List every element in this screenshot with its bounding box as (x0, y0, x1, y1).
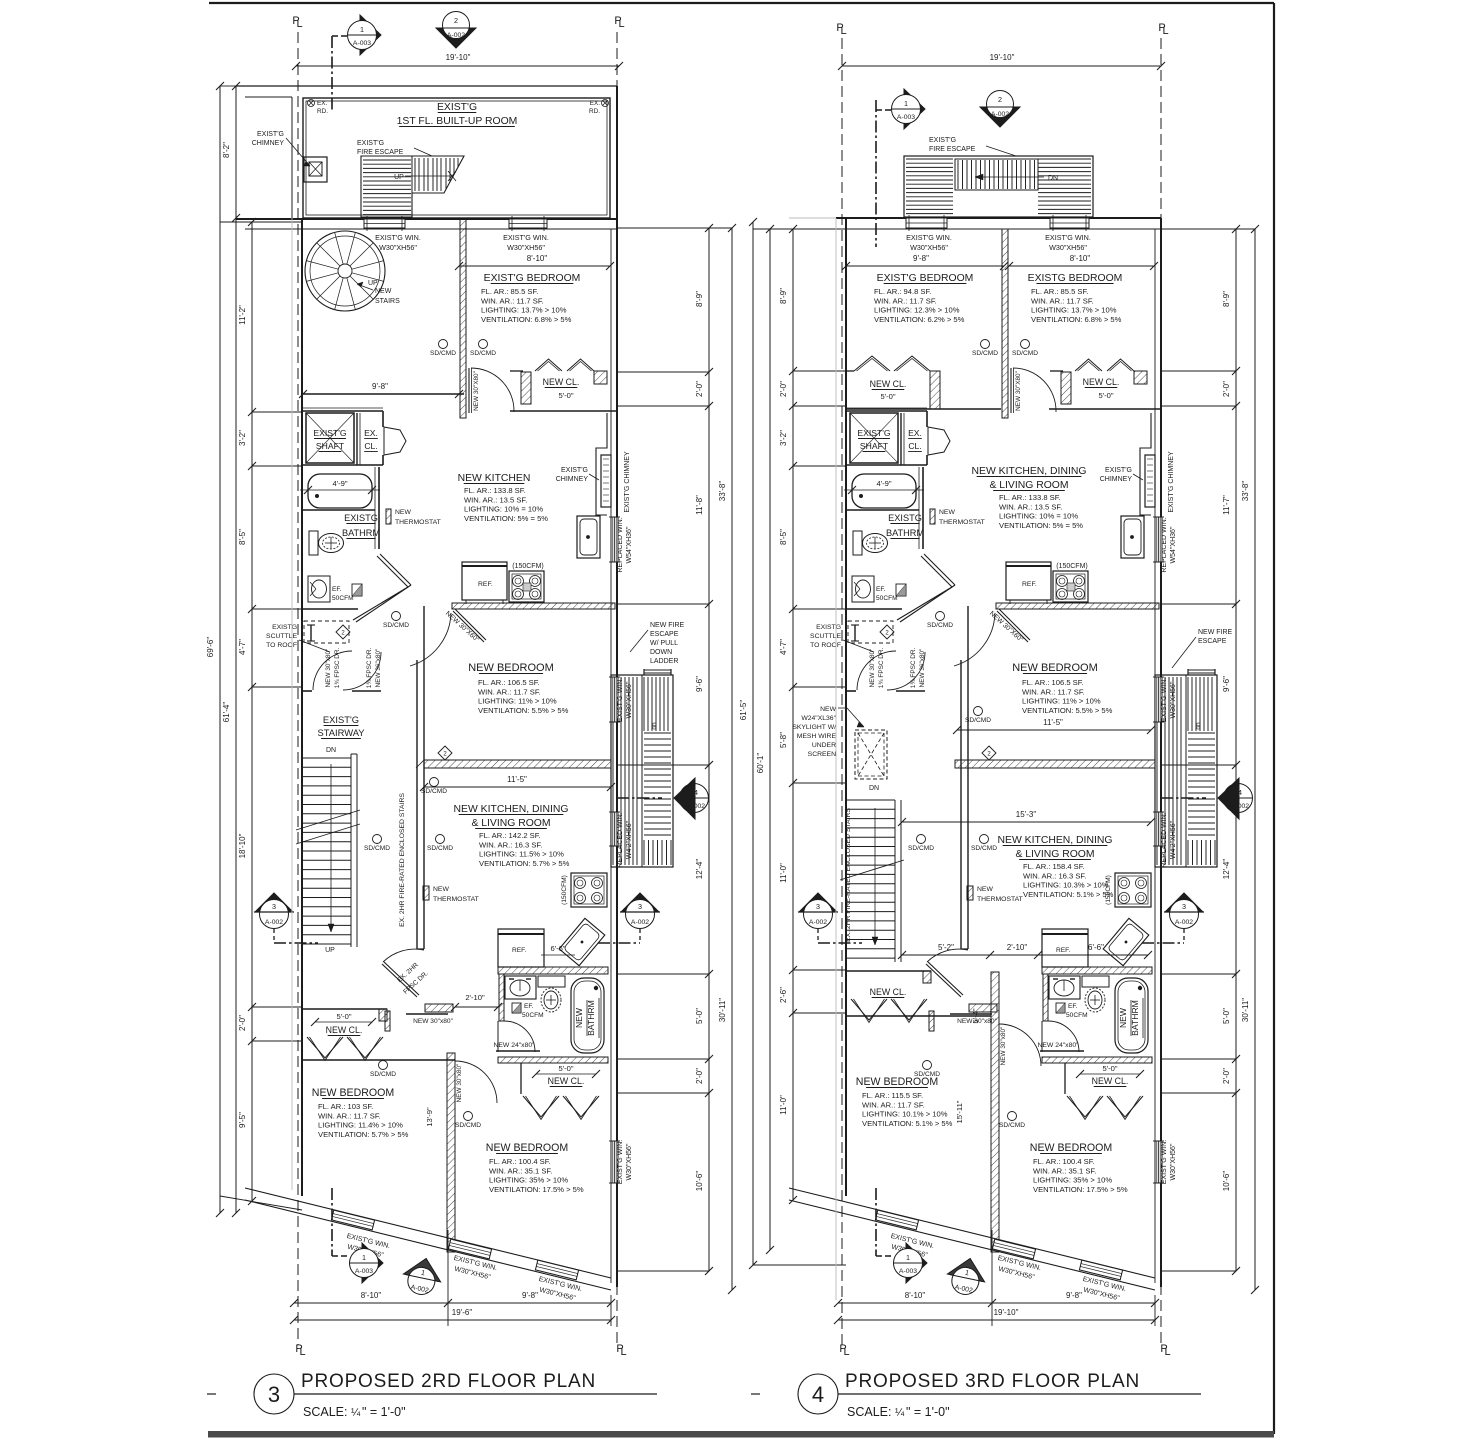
window (509, 219, 547, 228)
svg-text:REF.: REF. (1022, 581, 1037, 588)
dimension line (251, 222, 253, 1201)
toilet2 (1082, 976, 1109, 987)
top wall 3rd floor (836, 217, 1161, 219)
svg-text:REF.: REF. (512, 947, 526, 954)
door EX CL (928, 427, 950, 455)
stove2 (1115, 873, 1151, 907)
fire escape middle right (2nd floor) (611, 675, 673, 867)
svg-text:EXIST'G: EXIST'G (437, 102, 477, 113)
closet2 doors chevron (1067, 1096, 1103, 1117)
door arcs corridor (857, 651, 896, 690)
svg-text:8'-10": 8'-10" (905, 1291, 926, 1300)
smoke detector symbol SD/CMD (974, 707, 983, 716)
wall stub hatched below door (425, 1004, 453, 1012)
range stove (509, 571, 544, 602)
section cut line bottom (875, 1188, 877, 1256)
svg-text:MESH WIRE: MESH WIRE (797, 733, 837, 740)
extension lines left (252, 411, 302, 413)
wall below tub (302, 509, 375, 511)
svg-text:EXISTG BEDROOM: EXISTG BEDROOM (1028, 273, 1123, 284)
refrigerator2 (1042, 929, 1088, 967)
svg-text:NEW CL.: NEW CL. (1092, 1076, 1129, 1086)
dimension line (424, 786, 611, 788)
window in diagonal wall (331, 1210, 374, 1230)
svg-text:NEW KITCHEN: NEW KITCHEN (458, 473, 531, 484)
svg-text:EF.: EF. (876, 586, 886, 593)
diagonal exterior wall (245, 1188, 611, 1278)
svg-text:EXIST'G WIN.: EXIST'G WIN. (906, 233, 952, 242)
svg-text:UNDER: UNDER (812, 742, 836, 749)
wall bathroom bottom (846, 608, 902, 610)
svg-text:NEW 30"X80": NEW 30"X80" (1015, 371, 1022, 411)
svg-text:1: 1 (362, 1253, 366, 1262)
wall bathroom2 top hatched (498, 967, 608, 974)
section marker 3/A-002 (621, 893, 659, 912)
dimension line (708, 228, 710, 1271)
svg-text:EF.: EF. (332, 586, 342, 593)
EX RD symbol right (602, 100, 609, 107)
kitchen2 sink tilted (559, 918, 605, 965)
svg-text:LIGHTING: 13.7% > 10%: LIGHTING: 13.7% > 10% (1031, 306, 1117, 315)
stair treads (1188, 732, 1215, 734)
chimney left (304, 157, 327, 182)
smoke detector symbol SD/CMD (981, 340, 990, 349)
svg-text:19'-10": 19'-10" (446, 53, 471, 62)
window (906, 218, 947, 228)
svg-text:NEW 30"X80": NEW 30"X80" (473, 371, 480, 411)
svg-text:1¾ FPSC DR.: 1¾ FPSC DR. (334, 648, 341, 689)
window (1050, 218, 1089, 228)
stair rail 3rd (894, 800, 896, 962)
svg-text:SKYLIGHT W/: SKYLIGHT W/ (792, 724, 836, 731)
svg-text:SCUTTLE: SCUTTLE (810, 633, 841, 640)
section marker 4/A-002 (680, 784, 709, 813)
main floor top wall (236, 218, 617, 220)
svg-text:NEW 36"x80": NEW 36"x80" (375, 649, 382, 688)
svg-text:FL. AR.: 133.8 SF.: FL. AR.: 133.8 SF. (464, 486, 526, 495)
hatched partition wall vertical (991, 972, 999, 1252)
svg-text:STAIRWAY: STAIRWAY (317, 727, 365, 738)
svg-text:NEW CL.: NEW CL. (870, 987, 907, 997)
svg-text:THERMOSTAT: THERMOSTAT (395, 519, 441, 526)
window in diagonal wall (535, 1260, 578, 1280)
refrigerator REF (1006, 562, 1051, 600)
svg-text:SD/CMD: SD/CMD (965, 717, 991, 724)
svg-text:W30"XH56": W30"XH56" (626, 1143, 633, 1180)
right exterior wall 3rd (1160, 218, 1162, 1287)
dimension line (294, 1319, 611, 1321)
svg-text:FL. AR.: 100.4 SF.: FL. AR.: 100.4 SF. (489, 1157, 551, 1166)
keynote diamond (336, 625, 350, 639)
closet doors chevron (851, 999, 887, 1020)
svg-text:FL. AR.: 106.5 SF.: FL. AR.: 106.5 SF. (478, 678, 540, 687)
svg-text:5'-0": 5'-0" (1098, 391, 1113, 400)
svg-text:NEW CL.: NEW CL. (870, 379, 907, 389)
svg-text:SD/CMD: SD/CMD (470, 350, 496, 357)
svg-text:6'-6": 6'-6" (550, 944, 565, 953)
door leaf bedroom (468, 368, 470, 413)
svg-text:SD/CMD: SD/CMD (908, 845, 934, 852)
svg-text:4'-7": 4'-7" (238, 639, 247, 655)
scuttle symbol (854, 625, 856, 641)
svg-text:2'-10": 2'-10" (465, 993, 485, 1002)
svg-text:THERMOSTAT: THERMOSTAT (977, 896, 1023, 903)
svg-text:10'-6": 10'-6" (695, 1171, 704, 1192)
kitchen entry door (453, 611, 484, 642)
svg-text:VENTILATION: 6.8% > 5%: VENTILATION: 6.8% > 5% (1031, 315, 1122, 324)
svg-text:SD/CMD: SD/CMD (1012, 350, 1038, 357)
svg-text:8'-9": 8'-9" (779, 288, 788, 304)
wall bathroom2 left hatched (1043, 974, 1048, 1021)
svg-text:5'-0": 5'-0" (558, 1064, 573, 1073)
chimney niche wall (596, 413, 607, 515)
svg-text:WIN. AR.: 35.1 SF.: WIN. AR.: 35.1 SF. (489, 1166, 552, 1175)
sink2 (1049, 976, 1080, 999)
kitchen sink (1121, 516, 1144, 558)
toilet2 (538, 976, 565, 987)
svg-text:4'-9": 4'-9" (332, 479, 347, 488)
svg-text:SCALE:: SCALE: (847, 1405, 891, 1419)
svg-text:L: L (618, 18, 624, 30)
svg-text:EXIST'G: EXIST'G (313, 428, 346, 438)
title bubble (254, 1374, 294, 1414)
svg-text:EXIST'G WIN.: EXIST'G WIN. (1045, 233, 1091, 242)
central hatched wall 3rd (1002, 229, 1008, 418)
svg-text:NEW 24"x80": NEW 24"x80" (1037, 1042, 1079, 1049)
wall bathroom right (378, 467, 380, 549)
svg-text:ESCAPE: ESCAPE (1198, 638, 1227, 645)
svg-text:VENTILATION: 6.8% > 5%: VENTILATION: 6.8% > 5% (481, 315, 572, 324)
svg-text:" = 1'-0": " = 1'-0" (906, 1405, 950, 1419)
svg-text:WIN. AR.: 13.5 SF.: WIN. AR.: 13.5 SF. (464, 495, 527, 504)
svg-text:5'-0": 5'-0" (1222, 1008, 1231, 1024)
svg-text:W54"XH36": W54"XH36" (1170, 526, 1177, 563)
smoke detector symbol SD/CMD (980, 835, 989, 844)
svg-text:2'-0": 2'-0" (695, 381, 704, 397)
svg-text:L: L (843, 1346, 849, 1358)
svg-text:NEW CL.: NEW CL. (1083, 377, 1120, 387)
closet2 doors chevron (523, 1096, 559, 1117)
svg-text:A-003: A-003 (899, 1268, 917, 1275)
svg-text:NEW: NEW (1118, 1007, 1128, 1028)
svg-text:FL. AR.: 115.5 SF.: FL. AR.: 115.5 SF. (862, 1091, 923, 1100)
door arc partition (999, 1024, 1041, 1066)
thermostat living 3rd (967, 886, 973, 900)
scuttle symbol (310, 625, 312, 641)
svg-text:EXIST'G: EXIST'G (357, 140, 384, 147)
svg-text:W30"XH56": W30"XH56" (379, 243, 417, 252)
EX RD symbol left (308, 100, 315, 107)
section marker 1/A-002 (400, 1254, 445, 1298)
door leaf bedroom 3rd (1010, 368, 1012, 413)
svg-text:NEW 30"x80": NEW 30"x80" (325, 649, 332, 688)
exhaust fan EF2 (1056, 1003, 1065, 1013)
svg-text:18'-10": 18'-10" (238, 833, 247, 858)
svg-text:dn: dn (651, 722, 658, 730)
extension lines left 3rd (793, 370, 846, 372)
svg-text:VENTILATION: 17.5% > 5%: VENTILATION: 17.5% > 5% (1033, 1185, 1128, 1194)
svg-text:61'-5": 61'-5" (739, 700, 748, 721)
thermostat (930, 509, 935, 524)
wall bathroom top (846, 464, 927, 466)
svg-text:¼: ¼ (351, 1407, 361, 1419)
section marker 2/A-002 (436, 28, 476, 48)
svg-text:RD.: RD. (589, 108, 600, 115)
section cut line bottom (331, 1188, 333, 1256)
smoke detector symbol SD/CMD (923, 1061, 932, 1070)
svg-text:LIGHTING: 11.4% > 10%: LIGHTING: 11.4% > 10% (318, 1121, 403, 1130)
svg-text:11'-8": 11'-8" (695, 495, 704, 515)
svg-text:LIGHTING: 11.5% > 10%: LIGHTING: 11.5% > 10% (479, 850, 564, 859)
svg-text:SD/CMD: SD/CMD (421, 788, 447, 795)
svg-text:L: L (840, 25, 846, 37)
closet2 side walls (520, 1063, 522, 1094)
svg-text:LIGHTING: 10% = 10%: LIGHTING: 10% = 10% (464, 505, 543, 514)
section marker 1/A-003 (906, 1243, 927, 1283)
window (1155, 812, 1162, 846)
svg-text:FL. AR.: 142.2 SF.: FL. AR.: 142.2 SF. (479, 831, 541, 840)
wall bathroom2 top hatched (1042, 967, 1152, 974)
svg-text:19'-6": 19'-6" (452, 1308, 473, 1317)
svg-text:EXIST'G: EXIST'G (257, 131, 284, 138)
smoke detector symbol SD/CMD (479, 340, 488, 349)
svg-text:11'-2": 11'-2" (238, 305, 247, 325)
svg-text:LADDER: LADDER (650, 658, 678, 665)
svg-text:NEW BEDROOM: NEW BEDROOM (312, 1087, 394, 1099)
window in diagonal wall (875, 1210, 918, 1230)
door at stair bottom 3rd (926, 964, 961, 997)
svg-text:DOWN: DOWN (650, 649, 672, 656)
svg-text:5'-0": 5'-0" (336, 1012, 351, 1021)
svg-text:SD/CMD: SD/CMD (927, 622, 953, 629)
svg-text:REPLACED WIN.: REPLACED WIN. (1161, 812, 1168, 867)
svg-text:5'-0": 5'-0" (880, 392, 895, 401)
svg-text:LIGHTING: 10.1% > 10%: LIGHTING: 10.1% > 10% (862, 1110, 948, 1119)
section cut line top (331, 36, 333, 112)
stair enclosure right wall (416, 660, 418, 949)
svg-text:NEW CL.: NEW CL. (548, 1076, 585, 1086)
bathtub2 (571, 978, 604, 1053)
svg-text:3: 3 (638, 902, 642, 911)
svg-text:9'-6": 9'-6" (695, 676, 704, 692)
svg-text:VENTILATION: 5% = 5%: VENTILATION: 5% = 5% (999, 521, 1083, 530)
svg-text:SD/CMD: SD/CMD (430, 350, 456, 357)
svg-text:A-002: A-002 (991, 111, 1009, 118)
fire escape top (2nd floor) (361, 156, 464, 217)
svg-text:2'-6": 2'-6" (779, 987, 788, 1003)
svg-text:¼: ¼ (895, 1407, 905, 1419)
smoke detector symbol SD/CMD (917, 835, 926, 844)
svg-text:8'-10": 8'-10" (527, 254, 548, 263)
svg-text:30'-11": 30'-11" (718, 998, 727, 1022)
stair treads (644, 732, 671, 734)
svg-text:NEW 36"x80": NEW 36"x80" (919, 649, 926, 688)
svg-text:CL.: CL. (908, 441, 921, 451)
svg-text:CHIMNEY: CHIMNEY (1100, 476, 1133, 483)
toilet (853, 531, 862, 555)
svg-text:DN: DN (1048, 175, 1058, 182)
svg-text:3'-2": 3'-2" (238, 430, 247, 446)
svg-text:SD/CMD: SD/CMD (370, 1071, 396, 1078)
kitchen counter hatch (452, 603, 615, 609)
svg-text:VENTILATION: 17.5% > 5%: VENTILATION: 17.5% > 5% (489, 1185, 584, 1194)
closet right 3rd (1050, 370, 1063, 372)
svg-text:EXIST'G WIN.: EXIST'G WIN. (1161, 1140, 1168, 1185)
svg-text:FL. AR.: 158.4 SF.: FL. AR.: 158.4 SF. (1023, 862, 1085, 871)
svg-text:1¾ FPSC DR.: 1¾ FPSC DR. (878, 648, 885, 689)
svg-text:EXIST'G: EXIST'G (323, 714, 359, 725)
closet wall top (846, 970, 931, 972)
svg-text:50CFM: 50CFM (522, 1012, 544, 1019)
section marker 3/A-002 (1165, 893, 1203, 912)
svg-text:VENTILATION: 5.5% > 5%: VENTILATION: 5.5% > 5% (478, 706, 569, 715)
property line dashed right plan right (1160, 38, 1162, 218)
hatched partition wall vertical (447, 1053, 455, 1252)
svg-text:L: L (1162, 25, 1168, 37)
svg-text:EX. 2HR FIRE-RATED ENCLOSED ST: EX. 2HR FIRE-RATED ENCLOSED STAIRS (845, 808, 852, 942)
svg-text:(150CFM): (150CFM) (1105, 875, 1112, 905)
door arc bedroom 3rd (1013, 368, 1056, 412)
stair rail (350, 754, 352, 947)
stair treads (846, 799, 895, 801)
svg-text:NEW 30"x80": NEW 30"x80" (869, 649, 876, 688)
svg-text:NEW 30"x80": NEW 30"x80" (1000, 1027, 1007, 1066)
dimension line (455, 1006, 498, 1008)
chimney niche wall (1140, 413, 1151, 515)
extension lines right (617, 371, 709, 373)
svg-text:FL. AR.: 103 SF.: FL. AR.: 103 SF. (318, 1102, 373, 1111)
svg-text:WIN. AR.: 35.1 SF.: WIN. AR.: 35.1 SF. (1033, 1166, 1096, 1175)
svg-text:6'-6": 6'-6" (1088, 943, 1104, 952)
svg-text:5'-0": 5'-0" (1102, 1064, 1117, 1073)
svg-text:EX.: EX. (590, 100, 601, 107)
svg-text:8'-2": 8'-2" (222, 142, 231, 158)
svg-text:W4'2"XH56": W4'2"XH56" (1170, 820, 1177, 859)
svg-text:& LIVING ROOM: & LIVING ROOM (471, 818, 550, 829)
svg-text:STAIRS: STAIRS (375, 298, 400, 305)
smoke detector symbol SD/CMD (373, 835, 382, 844)
svg-text:SCUTTLE: SCUTTLE (266, 633, 297, 640)
svg-text:EXIST'G BEDROOM: EXIST'G BEDROOM (484, 273, 581, 284)
scuttle dashed box (304, 621, 349, 643)
closet top-right NEW CL (510, 370, 523, 372)
svg-text:SHAFT: SHAFT (316, 441, 345, 451)
svg-text:WIN. AR.: 11.7 SF.: WIN. AR.: 11.7 SF. (318, 1111, 381, 1120)
svg-text:11'-7": 11'-7" (1222, 495, 1231, 515)
svg-text:15'-11": 15'-11" (955, 1100, 964, 1123)
svg-text:69'-6": 69'-6" (206, 637, 215, 658)
dimension line (1009, 265, 1154, 267)
stair direction arrow (330, 764, 332, 932)
wall bedroom1 top 3rd (846, 1015, 991, 1017)
dimension line (731, 228, 733, 1290)
dimension line (752, 222, 754, 1265)
svg-text:EXISTG: EXISTG (888, 513, 922, 523)
svg-text:L: L (296, 18, 302, 30)
closet wall top (302, 1008, 387, 1010)
svg-text:4: 4 (1238, 788, 1242, 797)
svg-text:50CFM: 50CFM (332, 595, 354, 602)
closet doors chevron (307, 1037, 343, 1058)
extension lines right 3rd (1161, 370, 1236, 372)
svg-text:3: 3 (272, 902, 276, 911)
property line dashed left (297, 32, 299, 1345)
svg-text:EXIST'G BEDROOM: EXIST'G BEDROOM (877, 273, 974, 284)
svg-text:SHAFT: SHAFT (860, 441, 889, 451)
svg-text:WIN. AR.: 13.5 SF.: WIN. AR.: 13.5 SF. (999, 502, 1062, 511)
svg-text:NEW 30"x80": NEW 30"x80" (456, 1064, 463, 1103)
dimension line (303, 393, 459, 395)
svg-text:SD/CMD: SD/CMD (364, 845, 390, 852)
keynote diamond (880, 625, 894, 639)
svg-text:CHIMNEY: CHIMNEY (556, 476, 589, 483)
svg-text:NEW BEDROOM: NEW BEDROOM (486, 1142, 568, 1154)
dimension line (792, 229, 794, 1200)
svg-text:EXIST'G WIN.: EXIST'G WIN. (375, 233, 421, 242)
svg-text:EXIST'G: EXIST'G (1105, 467, 1132, 474)
svg-text:LIGHTING: 10.3% > 10%: LIGHTING: 10.3% > 10% (1023, 881, 1109, 890)
svg-text:10'-6": 10'-6" (1222, 1171, 1231, 1192)
svg-text:A-002: A-002 (265, 919, 283, 926)
svg-text:ESCAPE: ESCAPE (650, 631, 679, 638)
window (611, 677, 618, 722)
dimension line (902, 954, 1148, 956)
svg-text:W30"XH56": W30"XH56" (910, 243, 948, 252)
svg-text:5'-0": 5'-0" (695, 1008, 704, 1024)
smoke detector symbol SD/CMD (430, 778, 439, 787)
svg-text:8'-5": 8'-5" (238, 529, 247, 545)
svg-text:SD/CMD: SD/CMD (455, 1122, 481, 1129)
svg-text:2'-10": 2'-10" (1007, 943, 1028, 952)
svg-text:CHIMNEY: CHIMNEY (252, 140, 285, 147)
svg-text:EXIST'G WIN.: EXIST'G WIN. (617, 1140, 624, 1185)
kitchen entry door (997, 611, 1028, 642)
svg-text:11'-5": 11'-5" (507, 775, 527, 784)
svg-text:9'-8": 9'-8" (1066, 1291, 1082, 1300)
svg-text:EXIST'G CHIMNEY: EXIST'G CHIMNEY (624, 451, 631, 513)
svg-text:FL. AR.: 106.5 SF.: FL. AR.: 106.5 SF. (1022, 678, 1084, 687)
wall under spiral room (302, 393, 464, 395)
closet2 wall top hatched (1042, 1057, 1152, 1063)
svg-text:5'-2": 5'-2" (938, 943, 954, 952)
dimension line (838, 1319, 1155, 1321)
smoke detector symbol SD/CMD (464, 1112, 473, 1121)
section marker 1/A-003 (360, 15, 381, 55)
svg-text:A-003: A-003 (353, 40, 371, 47)
kitchen sink (577, 516, 600, 558)
keynote diamond (982, 746, 996, 760)
svg-text:4'-9": 4'-9" (876, 479, 891, 488)
wall corridor bottom (302, 690, 312, 692)
svg-text:PROPOSED 2RD FLOOR PLAN: PROPOSED 2RD FLOOR PLAN (301, 1371, 596, 1392)
svg-text:5'-0": 5'-0" (558, 391, 573, 400)
svg-text:1ST FL. BUILT-UP ROOM: 1ST FL. BUILT-UP ROOM (397, 116, 518, 127)
svg-text:CL.: CL. (364, 441, 377, 451)
svg-text:BATHRM: BATHRM (1130, 1000, 1140, 1036)
stair treads (302, 757, 351, 759)
svg-text:THERMOSTAT: THERMOSTAT (939, 519, 985, 526)
dimension line (219, 86, 221, 1213)
svg-text:" = 1'-0": " = 1'-0" (362, 1405, 406, 1419)
hatched divider wall horizontal (424, 760, 611, 768)
svg-text:SCREEN: SCREEN (808, 751, 836, 758)
kitchen2 sink tilted (1103, 918, 1149, 965)
wall corridor bottom (846, 690, 856, 692)
window (611, 1141, 618, 1183)
svg-text:5'-8": 5'-8" (779, 732, 788, 748)
extension lines bottom (991, 1230, 993, 1326)
section marker 1/A-003 (362, 1243, 383, 1283)
